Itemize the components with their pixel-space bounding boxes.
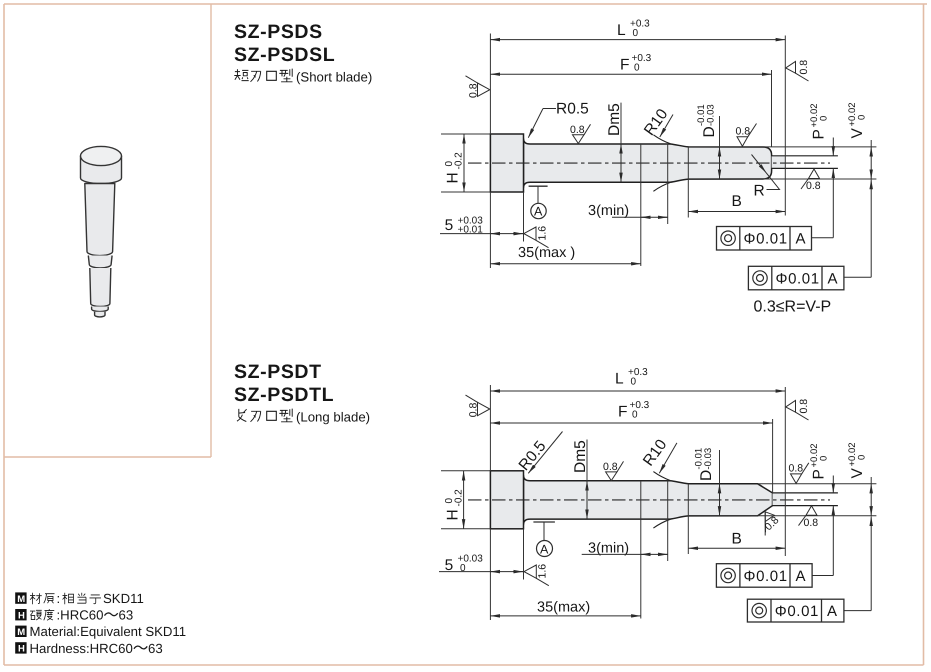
svg-text:SZ-PSDSL: SZ-PSDSL xyxy=(234,44,335,66)
svg-text:1.6: 1.6 xyxy=(536,226,548,241)
svg-text:F: F xyxy=(618,404,627,421)
svg-text:0: 0 xyxy=(818,456,829,461)
dimension F xyxy=(490,422,772,424)
svg-text:0.8: 0.8 xyxy=(789,463,804,475)
pin head xyxy=(490,134,523,192)
svg-text:D: D xyxy=(698,470,715,481)
svg-text:Φ0.01: Φ0.01 xyxy=(744,231,788,248)
dimension F xyxy=(490,73,771,75)
svg-text:(Long blade): (Long blade) xyxy=(296,410,370,425)
center line xyxy=(468,162,830,164)
svg-text::: : xyxy=(57,591,61,606)
pin head xyxy=(490,471,523,529)
svg-text:0.8: 0.8 xyxy=(798,60,810,75)
roughness 0.8 above D extension xyxy=(737,124,757,147)
svg-text:-0.03: -0.03 xyxy=(705,104,716,126)
svg-text:H: H xyxy=(444,509,461,520)
roughness 0.8 left of F start xyxy=(466,76,490,97)
svg-text:0.8: 0.8 xyxy=(804,517,819,529)
datum A flag xyxy=(529,185,548,187)
svg-text:Dm5: Dm5 xyxy=(572,440,589,473)
svg-text:M: M xyxy=(17,594,25,605)
svg-text:Φ0.01: Φ0.01 xyxy=(776,271,820,288)
svg-text:1.6: 1.6 xyxy=(537,564,549,579)
svg-text:-0.03: -0.03 xyxy=(703,448,714,470)
svg-text:+0.02: +0.02 xyxy=(809,103,820,127)
svg-text:Φ0.01: Φ0.01 xyxy=(744,568,788,585)
svg-text:+0.02: +0.02 xyxy=(809,443,820,467)
svg-text:A: A xyxy=(796,231,806,248)
material notes xyxy=(15,591,186,656)
svg-text:(Short blade): (Short blade) xyxy=(296,70,372,85)
datum A flag xyxy=(533,521,555,523)
photo box partition xyxy=(4,4,211,457)
svg-text:0: 0 xyxy=(634,63,640,74)
svg-text:P: P xyxy=(811,129,828,139)
roughness 0.8 above shaft xyxy=(573,124,591,143)
center line xyxy=(468,499,830,501)
svg-text:Hardness:HRC60: Hardness:HRC60 xyxy=(30,641,133,656)
svg-text:P: P xyxy=(811,469,828,479)
svg-text:5: 5 xyxy=(445,217,454,234)
svg-text:Dm5: Dm5 xyxy=(606,103,623,136)
svg-text:A: A xyxy=(534,205,543,219)
svg-text:0.8: 0.8 xyxy=(798,399,810,414)
roughness 0.8 left of F start xyxy=(466,395,490,416)
blade tip (long) xyxy=(773,493,786,506)
svg-text:L: L xyxy=(617,22,626,39)
svg-text:SKD11: SKD11 xyxy=(103,591,144,606)
svg-text:3(min): 3(min) xyxy=(588,540,629,556)
roughness 1.6 on head face xyxy=(524,565,549,586)
svg-text:+0.02: +0.02 xyxy=(847,442,858,466)
tolerance frame 2 (concentricity to A) xyxy=(748,266,844,290)
svg-text:0: 0 xyxy=(857,455,868,460)
roughness 0.8 above D extension xyxy=(791,463,809,484)
svg-text:0: 0 xyxy=(818,116,829,121)
svg-text:0: 0 xyxy=(631,377,637,388)
svg-text:B: B xyxy=(732,193,742,210)
extension lines xyxy=(441,34,876,269)
svg-text:3(min): 3(min) xyxy=(588,203,629,219)
svg-text::HRC60: :HRC60 xyxy=(57,608,104,623)
dimension H xyxy=(463,471,465,529)
svg-text:Φ0.01: Φ0.01 xyxy=(775,603,819,620)
tolerance frame 2 (concentricity to A) xyxy=(747,599,844,622)
R10 arc extensions xyxy=(653,472,670,481)
svg-text:A: A xyxy=(827,603,837,620)
svg-text:0.8: 0.8 xyxy=(736,126,751,138)
svg-text:F: F xyxy=(620,57,629,74)
svg-text:-0.2: -0.2 xyxy=(454,152,465,170)
svg-text:M: M xyxy=(17,627,25,638)
svg-text:0.8: 0.8 xyxy=(570,124,585,136)
svg-text:SZ-PSDTL: SZ-PSDTL xyxy=(234,384,334,406)
dimension B xyxy=(688,547,785,549)
svg-text:V: V xyxy=(849,468,866,479)
tolerance frame 1 (concentricity to A) xyxy=(717,227,812,251)
pin body: shaft, R10 taper, D section with rounded tip xyxy=(524,139,772,188)
svg-text:A: A xyxy=(828,271,838,288)
subtitle short blade CJK xyxy=(234,69,372,85)
dimension D with tolerance xyxy=(719,116,721,147)
svg-text:0.8: 0.8 xyxy=(468,403,480,418)
svg-text:H: H xyxy=(444,172,461,183)
svg-text:-0.2: -0.2 xyxy=(454,489,465,507)
svg-text:L: L xyxy=(615,371,624,388)
svg-text:0: 0 xyxy=(460,563,466,574)
svg-text:D: D xyxy=(701,126,718,137)
dimension Dm5 xyxy=(620,103,622,144)
extension lines xyxy=(441,385,876,620)
svg-text:0.3≤R=V-P: 0.3≤R=V-P xyxy=(754,299,832,316)
roughness 0.8 on cone surface (tilted) xyxy=(756,509,780,533)
roughness 0.8 below blade xyxy=(799,506,818,526)
dimension L xyxy=(490,390,785,392)
roughness 0.8 right of L end xyxy=(786,61,809,81)
roughness 1.6 on head face xyxy=(524,227,549,248)
svg-text:R0.5: R0.5 xyxy=(556,101,589,118)
roughness 0.8 above shaft xyxy=(606,461,624,480)
svg-text:63: 63 xyxy=(119,608,134,623)
dimension B xyxy=(688,211,785,213)
svg-text:B: B xyxy=(732,531,742,548)
svg-text:35(max ): 35(max ) xyxy=(518,245,575,261)
svg-text:Material:Equivalent SKD11: Material:Equivalent SKD11 xyxy=(30,624,187,639)
svg-text:63: 63 xyxy=(148,641,163,656)
roughness 0.8 right of L end xyxy=(786,400,809,420)
svg-text:SZ-PSDT: SZ-PSDT xyxy=(234,361,322,383)
roughness 0.8 below blade xyxy=(801,169,820,189)
svg-text:H: H xyxy=(18,610,25,621)
pin body: shaft, R10 taper, D section with cone tip xyxy=(524,475,773,524)
svg-text:R10: R10 xyxy=(640,436,671,469)
svg-text:+0.02: +0.02 xyxy=(847,102,858,126)
R10 arc extensions xyxy=(653,135,670,144)
svg-text:0.8: 0.8 xyxy=(603,461,618,473)
dimension D with tolerance xyxy=(719,450,721,484)
subtitle long blade CJK xyxy=(237,409,370,425)
svg-text:0: 0 xyxy=(857,115,868,120)
svg-text:0: 0 xyxy=(632,410,638,421)
3D pin illustration xyxy=(81,146,122,317)
dimension Dm5 xyxy=(586,440,588,481)
svg-text:A: A xyxy=(540,542,549,556)
svg-text:SZ-PSDS: SZ-PSDS xyxy=(234,21,323,43)
svg-text:35(max): 35(max) xyxy=(537,599,590,615)
svg-text:0: 0 xyxy=(633,28,639,39)
tolerance frame 1 (concentricity to A) xyxy=(716,564,812,588)
svg-text:A: A xyxy=(796,568,806,585)
dimension L xyxy=(490,39,785,41)
svg-text:0.8: 0.8 xyxy=(468,83,480,98)
svg-text:R: R xyxy=(754,183,765,200)
svg-text:R10: R10 xyxy=(641,106,672,139)
svg-text:0.8: 0.8 xyxy=(806,180,821,192)
svg-text:H: H xyxy=(18,644,25,655)
svg-text:V: V xyxy=(849,128,866,139)
blade tip (short) xyxy=(772,156,786,169)
dimension H xyxy=(463,134,465,192)
